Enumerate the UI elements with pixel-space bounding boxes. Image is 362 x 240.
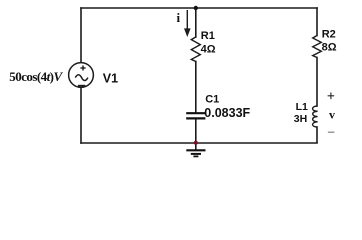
svg-text:i: i <box>177 10 181 25</box>
wire left-top <box>80 8 82 63</box>
inductor L1 <box>313 106 318 127</box>
svg-text:8Ω: 8Ω <box>322 41 337 53</box>
wire top <box>81 7 317 9</box>
wire right-upper <box>316 8 318 36</box>
svg-text:50cos(4t)V: 50cos(4t)V <box>9 69 63 84</box>
wire middle-bottom <box>195 119 197 143</box>
wire right-bottom <box>316 127 318 143</box>
node bottom junction <box>194 141 198 145</box>
polarity plus <box>328 93 335 100</box>
wire left-bottom <box>80 87 82 143</box>
svg-text:v: v <box>329 108 335 122</box>
current arrow i <box>184 10 191 37</box>
wire middle-upper <box>195 8 197 37</box>
polarity minus <box>328 131 335 133</box>
svg-text:4Ω: 4Ω <box>201 43 216 55</box>
ground <box>186 150 205 156</box>
wire middle-lower <box>195 62 197 113</box>
capacitor C1 <box>186 113 205 118</box>
voltage source V1 <box>69 63 94 88</box>
svg-text:0.0833F: 0.0833F <box>204 106 250 120</box>
wire bottom <box>81 142 317 144</box>
svg-text:R1: R1 <box>201 30 215 42</box>
wire ground stub <box>195 143 197 149</box>
wire right-middle <box>316 58 318 107</box>
svg-text:R2: R2 <box>322 28 336 40</box>
resistor R2 <box>313 36 322 58</box>
svg-text:V1: V1 <box>103 72 118 86</box>
node top junction <box>194 6 198 10</box>
svg-text:C1: C1 <box>205 94 219 106</box>
svg-text:L1: L1 <box>296 101 308 113</box>
resistor R1 <box>191 37 200 62</box>
svg-text:3H: 3H <box>294 113 307 125</box>
